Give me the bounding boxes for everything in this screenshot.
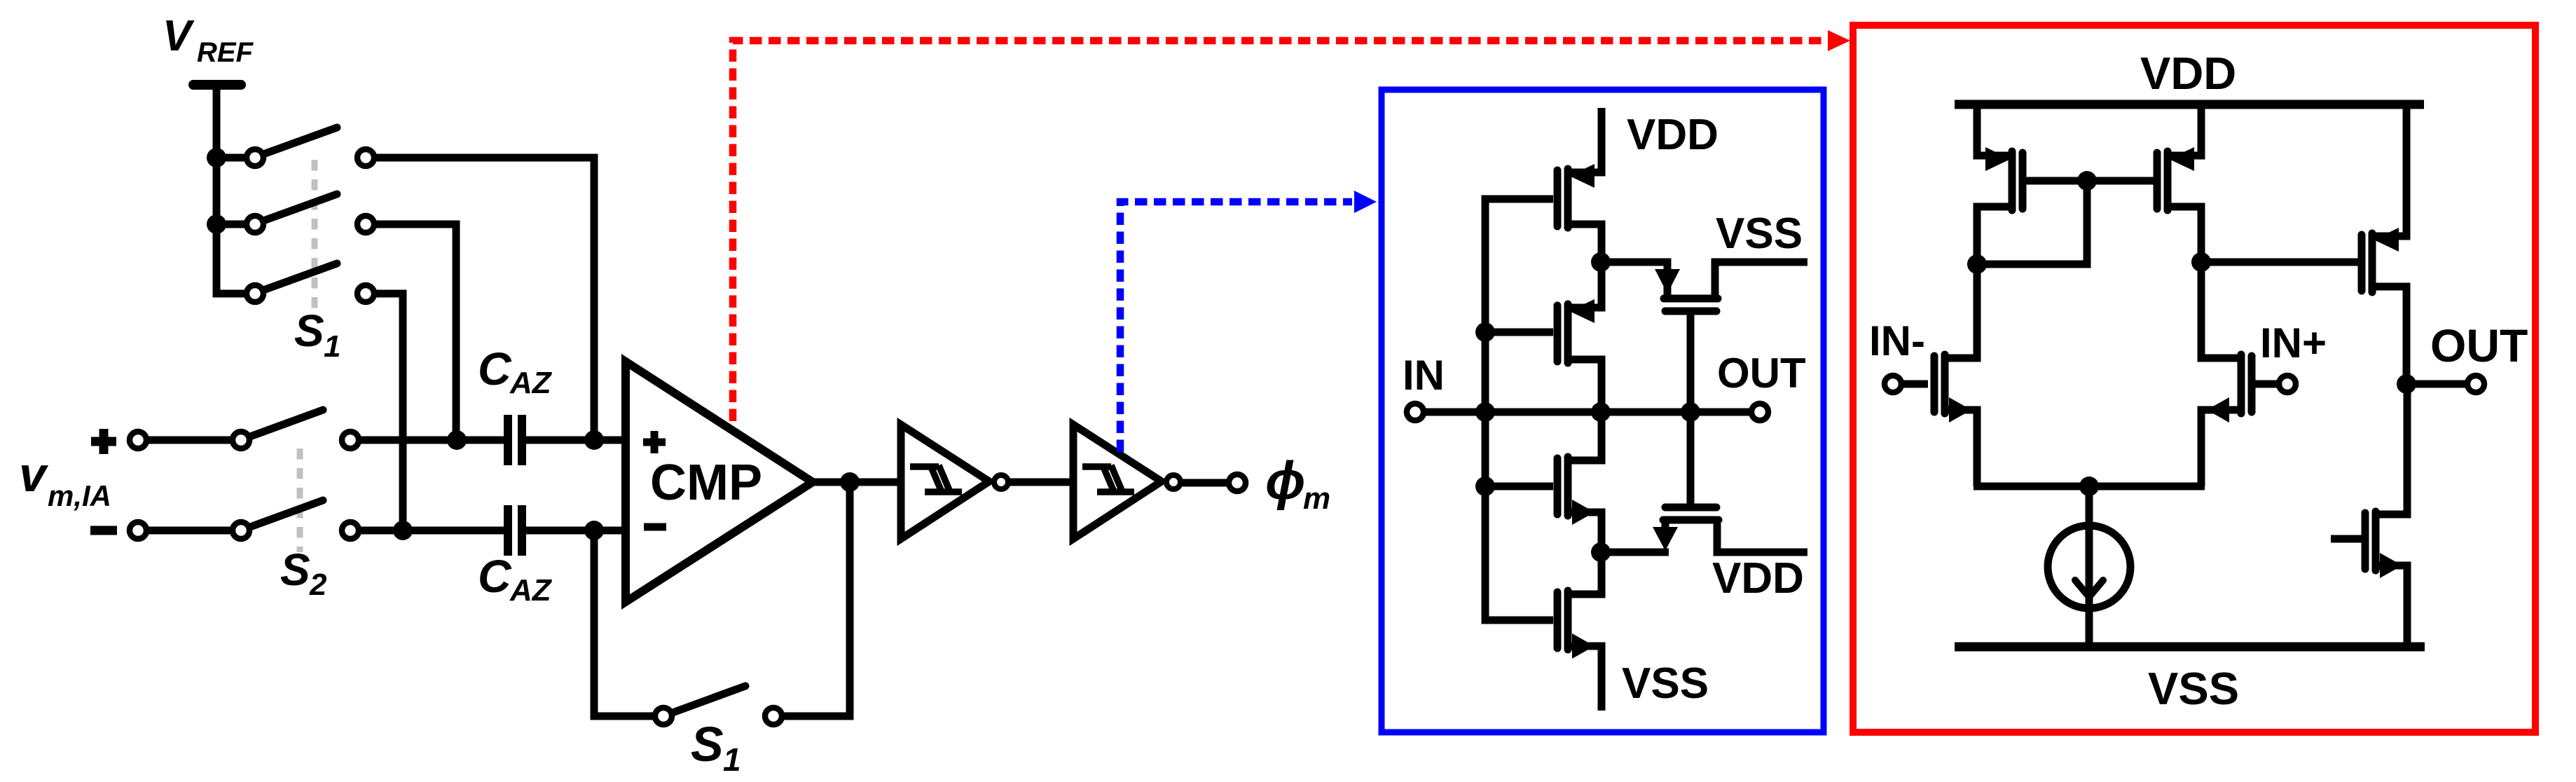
node junction plus row	[447, 430, 467, 450]
switch S2 minus arm	[250, 500, 323, 527]
transistor M6 pmos	[2157, 104, 2201, 262]
switch S1 feedback left contact	[655, 708, 672, 725]
wire diode connection	[1977, 177, 2087, 264]
transistor M10 nmos output	[2365, 384, 2407, 647]
node junction CMP minus input	[584, 521, 604, 540]
node junction gate bus	[1475, 402, 1495, 422]
switch S2 plus arm	[250, 410, 323, 437]
capacitor CAZ top	[508, 415, 522, 465]
node junction bus M2 gate	[1475, 322, 1495, 342]
svg-text:OUT: OUT	[2430, 320, 2528, 371]
wire M2 gate lead	[1485, 329, 1553, 336]
terminal circle IN	[1407, 404, 1424, 420]
svg-text:CMP: CMP	[650, 455, 762, 511]
S1 gang dashed line	[312, 160, 318, 314]
transistor M3 nmos	[1557, 412, 1602, 552]
wire CMP output	[813, 479, 902, 486]
svg-text:IN-: IN-	[1869, 317, 1925, 364]
wire VDD rail	[1955, 100, 2424, 109]
wire tail node	[1974, 483, 2205, 491]
wire switch row3 to minus input node	[375, 294, 403, 530]
switch S1 row2 arm	[263, 194, 337, 221]
wire feedback to minus node	[594, 530, 654, 716]
wire cap top to CMP	[526, 437, 626, 444]
wire IN- gate lead	[1903, 380, 1928, 388]
node junction M6 drain	[2191, 252, 2211, 272]
switch S1 row1 right contact	[357, 149, 374, 166]
switch S1 row3 arm	[263, 263, 337, 290]
node junction feedback gates	[1681, 402, 1700, 422]
wire vin plus	[148, 437, 233, 444]
hysteresis mark buffer 1	[910, 465, 962, 493]
svg-text:VDD: VDD	[1627, 111, 1719, 159]
wire M10 gate stub	[2331, 535, 2362, 543]
node plus sign input	[91, 429, 116, 454]
wire switch row1 to CMP plus node	[375, 158, 594, 440]
svg-text:OUT: OUT	[1717, 350, 1806, 397]
node junction drain column	[1591, 402, 1611, 422]
terminal circle vin plus	[130, 432, 146, 448]
wire mirror gates	[2026, 177, 2155, 185]
transistor M9 nmos input pair mirror	[2201, 262, 2252, 486]
CMP plus input mark	[643, 431, 666, 453]
svg-text:VDD: VDD	[2140, 48, 2236, 99]
wire buffer1 to buffer2	[1010, 479, 1073, 486]
S2 gang dashed line	[297, 448, 303, 552]
wire tail to VSS rail	[2086, 486, 2093, 647]
wire buffer2 to output terminal	[1183, 479, 1228, 487]
transistor M2 pmos	[1557, 262, 1602, 412]
terminal circle IN-	[1885, 376, 1901, 392]
transistor MF2 feedback pmos to VDD	[1653, 507, 1807, 552]
svg-text:m,IA: m,IA	[48, 479, 111, 512]
svg-text:C: C	[478, 343, 512, 395]
red callout arrowhead	[1828, 30, 1850, 51]
terminal circle phi_m	[1229, 474, 1246, 491]
wire M3 gate lead	[1485, 483, 1553, 491]
switch S2 plus pole contact	[233, 432, 249, 448]
capacitor CAZ bottom	[508, 505, 522, 556]
switch S1 row3 left contact	[247, 285, 263, 302]
svg-text:AZ: AZ	[509, 573, 553, 608]
switch S1 row3 right contact	[357, 285, 374, 302]
svg-text:S: S	[294, 306, 324, 356]
terminal circle OUT	[1751, 404, 1768, 420]
svg-text:VDD: VDD	[1712, 554, 1804, 603]
wire VSS rail	[1955, 643, 2425, 652]
wire IN to OUT row	[1425, 409, 1751, 416]
transistor M1 pmos top	[1557, 108, 1602, 262]
node junction on VREF bus row2	[207, 214, 226, 234]
wire M6 drain to M8 gate	[2201, 259, 2358, 266]
wire MF2 gate to OUT row	[1687, 412, 1695, 511]
terminal circle OUT comparator	[2467, 376, 2484, 392]
wire VREF to switch row2	[226, 221, 246, 228]
terminal circle vin minus	[130, 522, 146, 539]
node junction CMP plus input	[584, 430, 604, 450]
svg-text:ϕ: ϕ	[1265, 451, 1306, 511]
terminal circle IN+	[2279, 376, 2296, 392]
switch S2 minus right contact	[342, 522, 359, 539]
inverter bubble buffer 2	[1166, 475, 1180, 489]
svg-text:AZ: AZ	[509, 366, 553, 400]
switch S1 row2 right contact	[357, 216, 374, 233]
node junction mirror gate	[2077, 171, 2097, 191]
svg-text:IN+: IN+	[2260, 320, 2327, 366]
red box frame	[1853, 25, 2535, 732]
red dashed callout from CMP to red box	[733, 41, 1826, 421]
node junction OUT	[2397, 374, 2416, 394]
op-amp CMP comparator	[626, 362, 813, 602]
wire node B to MF2	[1601, 549, 1669, 556]
inverter bubble buffer 1	[994, 475, 1008, 489]
svg-text:v: v	[19, 447, 49, 502]
wire plus row to capacitor	[359, 437, 504, 444]
svg-text:1: 1	[723, 741, 741, 778]
svg-text:IN: IN	[1403, 352, 1445, 399]
switch S1 row1 arm	[263, 128, 337, 154]
svg-text:V: V	[163, 12, 195, 60]
hysteresis mark buffer 2	[1082, 465, 1134, 493]
wire VREF to switch row1	[226, 154, 246, 162]
node B junction	[1591, 542, 1611, 562]
svg-text:1: 1	[324, 329, 340, 364]
svg-text:C: C	[478, 550, 512, 602]
svg-text:VSS: VSS	[1716, 210, 1803, 258]
svg-text:REF: REF	[197, 37, 254, 68]
wire minus row to capacitor	[359, 527, 504, 535]
transistor M5 pmos mirror left	[1977, 104, 2023, 264]
node minus sign input	[90, 526, 117, 535]
wire vin minus	[148, 527, 233, 535]
wire VREF vertical	[216, 85, 246, 294]
wire node A to MF1	[1601, 262, 1667, 295]
transistor M8 pmos output	[2362, 104, 2406, 384]
blue dashed callout from buffer2 to blue box	[1120, 202, 1352, 452]
svg-text:VSS: VSS	[2148, 663, 2239, 714]
node junction on VREF bus row1	[207, 148, 226, 167]
CMP minus input mark	[644, 523, 666, 531]
switch S2 plus right contact	[342, 432, 359, 448]
node junction M5 drain	[1967, 254, 1987, 274]
switch S1 row2 left contact	[247, 216, 263, 233]
transistor M4 nmos bottom	[1557, 552, 1602, 711]
transistor MF1 feedback nmos to VSS	[1655, 262, 1807, 311]
wire feedback down and left	[783, 482, 850, 716]
blue callout arrowhead	[1354, 191, 1377, 213]
svg-text:VSS: VSS	[1622, 659, 1709, 708]
wire cap bottom to CMP	[526, 527, 626, 535]
buffer schmitt trigger 1	[901, 425, 989, 539]
blue box frame	[1382, 90, 1824, 732]
wire gate bus	[1485, 199, 1553, 620]
wire OUT node to terminal	[2406, 380, 2466, 388]
node junction tail	[2079, 476, 2099, 496]
svg-text:S: S	[691, 717, 724, 771]
node A junction	[1591, 252, 1611, 272]
transistor M7 nmos input pair	[1934, 264, 1977, 486]
current source I1	[2048, 526, 2130, 608]
switch S2 minus pole contact	[233, 522, 249, 539]
switch S1 feedback right contact	[765, 708, 782, 725]
VREF supply bar	[193, 80, 241, 90]
current source arrow	[2075, 580, 2103, 597]
svg-text:2: 2	[309, 568, 327, 602]
node junction bus M3 gate	[1475, 476, 1495, 496]
buffer schmitt trigger 2	[1073, 425, 1162, 539]
switch S1 row1 left contact	[247, 149, 263, 166]
svg-text:m: m	[1303, 481, 1330, 516]
node junction minus row	[393, 521, 413, 540]
wire MF1 gate to OUT row	[1687, 315, 1695, 412]
wire IN+ gate lead	[2255, 380, 2278, 388]
wire switch row2 to plus input node	[375, 224, 456, 440]
svg-text:S: S	[280, 544, 310, 595]
switch S1 feedback arm	[673, 686, 745, 713]
node junction CMP output	[840, 472, 860, 492]
